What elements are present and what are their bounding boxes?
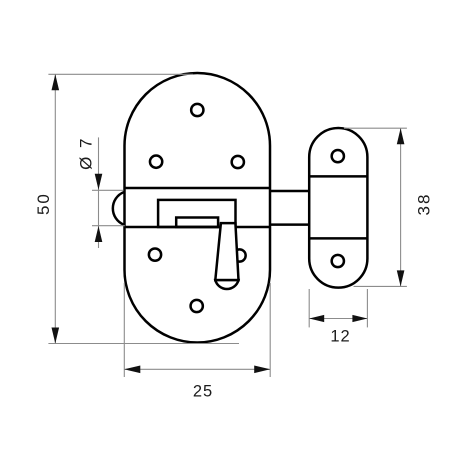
hole upper-right [232, 156, 244, 168]
keeper band top edge [309, 175, 367, 178]
bolt housing bottom edge [125, 226, 271, 229]
dim 25 arrow right [254, 366, 270, 374]
dim 12 arrow left [309, 315, 324, 322]
dim 25 extension line right [269, 283, 271, 377]
dim 50 arrow top [52, 74, 60, 90]
hole lower-left [149, 248, 161, 260]
dim 12 extension line left [308, 289, 310, 327]
svg-text:50: 50 [34, 192, 53, 215]
bolt guide staple rectangle [158, 200, 235, 227]
dim 50 extension line bottom [48, 343, 239, 345]
dim 50 line [54, 74, 56, 343]
dim diameter 7 extension line bottom [92, 225, 125, 227]
dim 12 arrow right [352, 315, 367, 322]
bolt step rectangle [176, 218, 218, 228]
svg-text:Ø 7: Ø 7 [76, 136, 95, 169]
dim 12 line [309, 318, 367, 320]
bolt housing top edge [125, 187, 271, 190]
hole bottom-center [191, 300, 203, 312]
dim 25 arrow left [124, 366, 140, 374]
dim 38 line [400, 128, 402, 286]
hole top-center [191, 104, 203, 116]
dim 38 extension line top [344, 127, 407, 129]
dim 50 arrow bottom [52, 328, 60, 344]
svg-text:38: 38 [414, 193, 433, 216]
hole upper-left [150, 156, 162, 168]
bolt end cap bulge (left) [113, 192, 124, 225]
dim 50 extension line top [48, 73, 193, 75]
dim diameter 7 extension line top [92, 189, 123, 191]
svg-text:12: 12 [330, 328, 350, 346]
dim diameter 7 arrow up [95, 226, 103, 242]
dim 38 extension line bottom [354, 285, 407, 287]
handle knob [215, 223, 238, 280]
keeper band bottom edge [309, 237, 367, 240]
dim 25 extension line left [123, 283, 125, 377]
dim 38 arrow top [397, 128, 405, 144]
main latch plate outline [125, 73, 271, 343]
keeper hole top [332, 150, 344, 162]
dim diameter 7 arrow down [95, 174, 103, 190]
svg-text:25: 25 [193, 383, 213, 401]
dim 38 arrow bottom [397, 270, 405, 286]
handle knob dome [215, 280, 238, 289]
dim 25 line [124, 368, 270, 370]
hole lower-right (behind handle) [233, 249, 245, 261]
keeper hole bottom [332, 255, 344, 267]
bolt rod between plate and keeper [270, 190, 309, 193]
dim diameter 7 leader line [98, 137, 100, 248]
keeper plate outline [309, 128, 367, 288]
dim 12 extension line right [366, 289, 368, 327]
